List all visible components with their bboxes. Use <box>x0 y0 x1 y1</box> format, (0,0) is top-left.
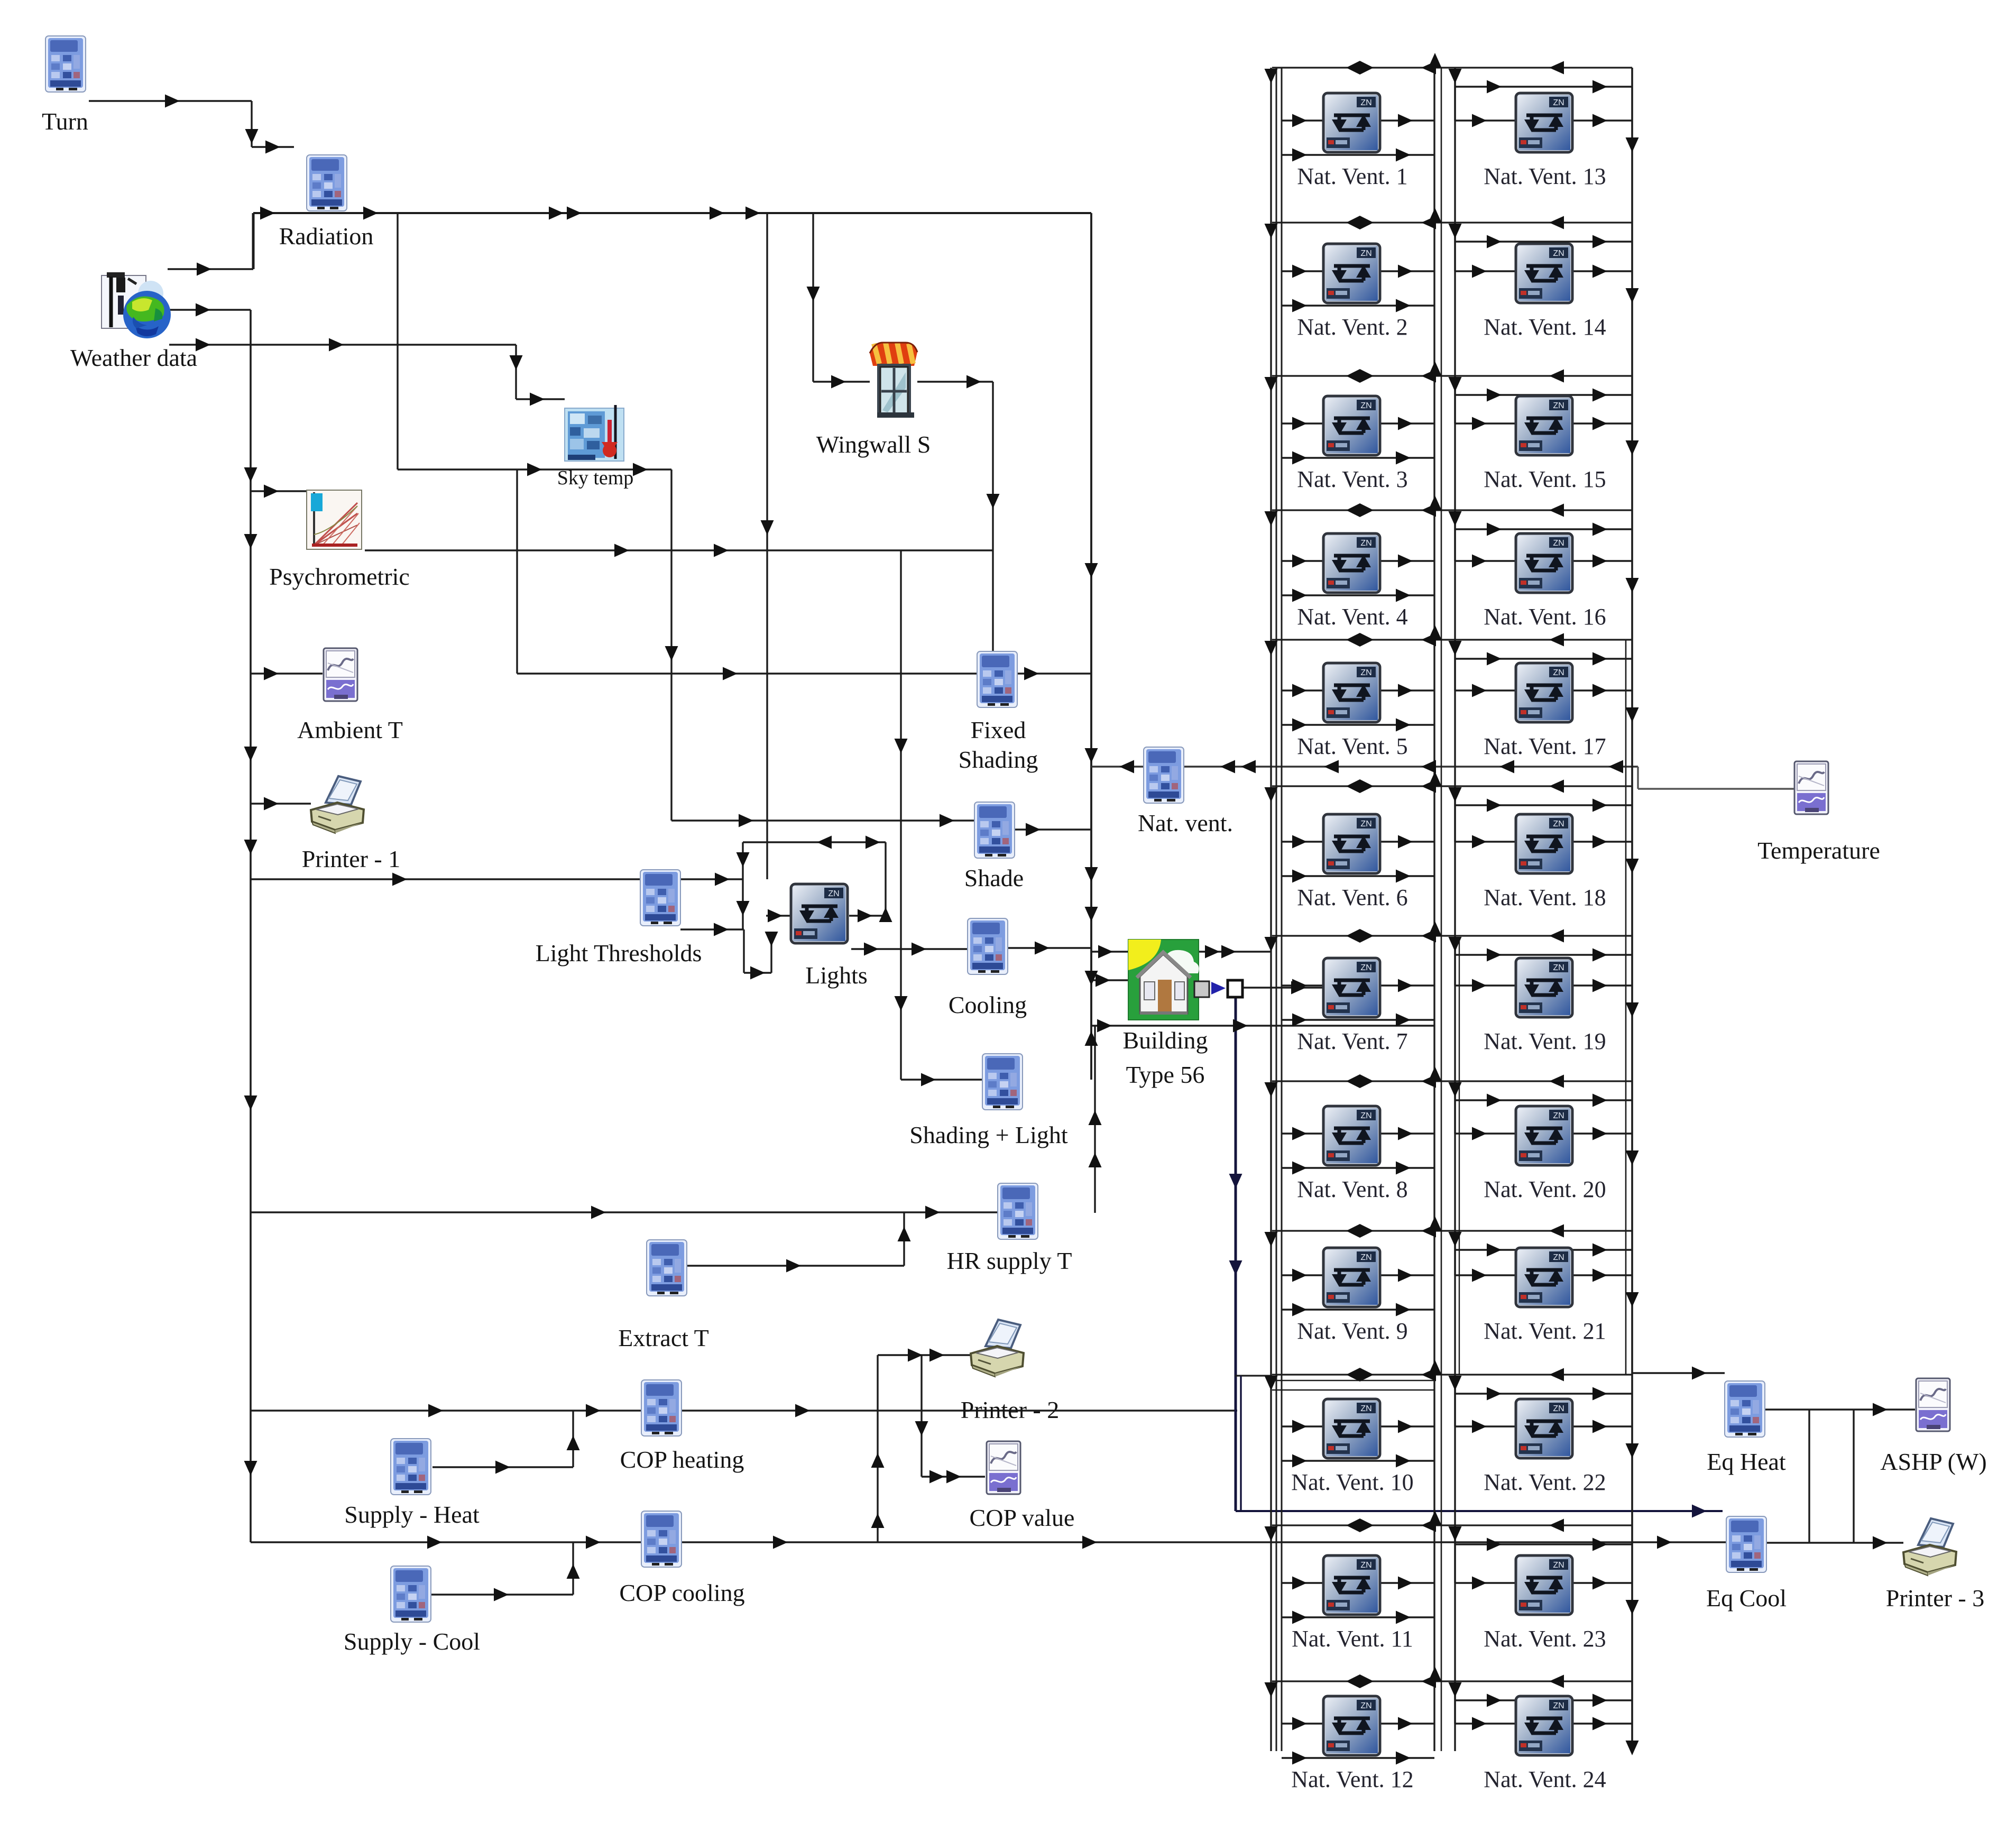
svg-text:ZN: ZN <box>1553 668 1564 677</box>
nat vent 18 controller <box>1516 814 1572 873</box>
shade calc <box>974 802 1015 858</box>
svg-text:Ambient T: Ambient T <box>297 716 403 743</box>
nat vent calc <box>1144 747 1184 803</box>
HR supply T calc <box>998 1183 1038 1239</box>
shading+light calc <box>982 1054 1023 1110</box>
svg-text:ZN: ZN <box>1553 963 1564 972</box>
nat vent 1 controller <box>1323 93 1380 152</box>
nat vent 8 controller <box>1323 1106 1380 1165</box>
svg-text:Nat. Vent. 7: Nat. Vent. 7 <box>1297 1028 1407 1054</box>
svg-text:Printer - 1: Printer - 1 <box>302 845 401 872</box>
printer 3 <box>1903 1518 1956 1576</box>
svg-text:Nat. Vent. 5: Nat. Vent. 5 <box>1297 733 1407 759</box>
svg-text:COP cooling: COP cooling <box>619 1579 744 1606</box>
svg-text:Supply - Heat: Supply - Heat <box>344 1501 480 1528</box>
eq heat calc <box>1725 1381 1765 1437</box>
supply cool calc <box>391 1566 431 1622</box>
svg-text:Nat. Vent. 24: Nat. Vent. 24 <box>1484 1766 1606 1792</box>
cooling calc <box>968 918 1008 974</box>
svg-text:COP heating: COP heating <box>620 1446 744 1473</box>
svg-text:ZN: ZN <box>1360 820 1371 828</box>
svg-text:Shading + Light: Shading + Light <box>909 1121 1068 1148</box>
svg-text:ZN: ZN <box>1553 539 1564 548</box>
ASHP plotter <box>1916 1378 1950 1431</box>
svg-text:Cooling: Cooling <box>949 991 1027 1018</box>
svg-text:ZN: ZN <box>1553 820 1564 828</box>
extract T calc <box>647 1240 687 1296</box>
svg-text:Nat. Vent. 22: Nat. Vent. 22 <box>1484 1469 1606 1495</box>
calculator Radiation <box>307 155 347 211</box>
svg-text:Nat. Vent. 18: Nat. Vent. 18 <box>1484 885 1606 910</box>
nat vent 12 controller <box>1323 1696 1380 1755</box>
svg-text:ZN: ZN <box>828 889 839 898</box>
svg-text:Nat. Vent. 15: Nat. Vent. 15 <box>1484 466 1606 492</box>
sky temp icon <box>565 405 624 461</box>
COP value plotter <box>987 1441 1020 1494</box>
nat vent 9 controller <box>1323 1248 1380 1307</box>
svg-text:ZN: ZN <box>1553 1404 1564 1413</box>
svg-text:Nat. Vent. 19: Nat. Vent. 19 <box>1484 1028 1606 1054</box>
nat vent 17 controller <box>1516 663 1572 722</box>
svg-text:ZN: ZN <box>1360 98 1371 107</box>
svg-text:Building: Building <box>1122 1027 1208 1054</box>
svg-text:Nat. Vent. 4: Nat. Vent. 4 <box>1297 604 1407 630</box>
printer 1 <box>311 776 364 833</box>
nat vent 4 controller <box>1323 533 1380 593</box>
connector squares <box>1194 981 1209 997</box>
nat vent 14 controller <box>1516 244 1572 303</box>
svg-text:ASHP (W): ASHP (W) <box>1880 1448 1986 1475</box>
svg-text:Turn: Turn <box>42 108 88 135</box>
svg-text:ZN: ZN <box>1553 401 1564 410</box>
light thresholds calc <box>640 870 680 926</box>
wingwall icon <box>870 343 917 418</box>
nat vent 16 controller <box>1516 533 1572 593</box>
svg-text:Eq Heat: Eq Heat <box>1707 1448 1786 1475</box>
svg-text:ZN: ZN <box>1553 1253 1564 1262</box>
fixed shading calc <box>977 651 1017 707</box>
nat vent 21 controller <box>1516 1248 1572 1307</box>
nat vent 5 controller <box>1323 663 1380 722</box>
svg-text:ZN: ZN <box>1553 98 1564 107</box>
svg-text:ZN: ZN <box>1360 1253 1371 1262</box>
svg-text:Nat. Vent. 1: Nat. Vent. 1 <box>1297 163 1407 189</box>
svg-text:Lights: Lights <box>805 962 868 989</box>
svg-text:Nat. Vent. 8: Nat. Vent. 8 <box>1297 1176 1407 1202</box>
svg-text:Nat. Vent. 21: Nat. Vent. 21 <box>1484 1318 1606 1344</box>
svg-text:ZN: ZN <box>1360 539 1371 548</box>
svg-text:Temperature: Temperature <box>1757 837 1880 864</box>
nat vent 2 controller <box>1323 244 1380 303</box>
svg-text:HR supply T: HR supply T <box>947 1247 1072 1274</box>
svg-text:Nat. Vent. 2: Nat. Vent. 2 <box>1297 314 1407 340</box>
svg-text:ZN: ZN <box>1553 1111 1564 1120</box>
svg-text:Extract T: Extract T <box>618 1324 709 1351</box>
weather data icon <box>102 272 171 338</box>
svg-text:Nat. Vent. 6: Nat. Vent. 6 <box>1297 885 1407 910</box>
svg-text:Wingwall S: Wingwall S <box>816 431 931 458</box>
nat vent 13 controller <box>1516 93 1572 152</box>
eq cool calc <box>1726 1516 1766 1572</box>
nat vent 3 controller <box>1323 396 1380 455</box>
svg-text:Shade: Shade <box>964 864 1024 891</box>
svg-text:ZN: ZN <box>1360 401 1371 410</box>
svg-text:Nat. Vent. 10: Nat. Vent. 10 <box>1291 1469 1413 1495</box>
svg-text:Printer - 3: Printer - 3 <box>1886 1585 1985 1612</box>
nat vent 19 controller <box>1516 958 1572 1017</box>
svg-text:ZN: ZN <box>1360 1111 1371 1120</box>
svg-text:Nat. Vent. 12: Nat. Vent. 12 <box>1291 1766 1413 1792</box>
svg-text:Light Thresholds: Light Thresholds <box>536 940 702 966</box>
svg-text:ZN: ZN <box>1360 963 1371 972</box>
svg-text:ZN: ZN <box>1360 1701 1371 1710</box>
svg-text:Radiation: Radiation <box>279 223 374 250</box>
building type56 <box>1128 940 1199 1020</box>
svg-text:ZN: ZN <box>1553 249 1564 258</box>
svg-text:Nat. vent.: Nat. vent. <box>1138 809 1233 836</box>
svg-text:Printer - 2: Printer - 2 <box>961 1396 1060 1423</box>
svg-text:Nat. Vent. 9: Nat. Vent. 9 <box>1297 1318 1407 1344</box>
svg-text:Weather data: Weather data <box>70 344 197 371</box>
COP cooling calc <box>641 1511 682 1567</box>
ambient T plotter <box>324 648 357 701</box>
nat vent 23 controller <box>1516 1555 1572 1615</box>
svg-text:ZN: ZN <box>1360 1561 1371 1570</box>
svg-text:Psychrometric: Psychrometric <box>269 563 410 590</box>
svg-text:Nat. Vent. 17: Nat. Vent. 17 <box>1484 733 1606 759</box>
svg-text:ZN: ZN <box>1553 1561 1564 1570</box>
COP heating calc <box>641 1380 682 1436</box>
svg-text:Nat. Vent. 3: Nat. Vent. 3 <box>1297 466 1407 492</box>
nat vent 22 controller <box>1516 1399 1572 1458</box>
printer 2 <box>971 1320 1024 1377</box>
nat vent 6 controller <box>1323 814 1380 873</box>
lights controller <box>791 884 848 943</box>
svg-text:Fixed: Fixed <box>971 716 1026 743</box>
nat vent 20 controller <box>1516 1106 1572 1165</box>
calculator Turn <box>45 36 86 92</box>
svg-text:ZN: ZN <box>1553 1701 1564 1710</box>
svg-text:Type 56: Type 56 <box>1126 1061 1205 1088</box>
svg-text:Supply - Cool: Supply - Cool <box>344 1628 480 1655</box>
svg-text:ZN: ZN <box>1360 668 1371 677</box>
nat vent 7 controller <box>1323 958 1380 1017</box>
svg-text:ZN: ZN <box>1360 249 1371 258</box>
nat vent 10 controller <box>1323 1399 1380 1458</box>
psychrometric icon <box>307 490 362 549</box>
svg-text:Nat. Vent. 23: Nat. Vent. 23 <box>1484 1626 1606 1652</box>
supply heat calc <box>391 1439 431 1495</box>
svg-text:Shading: Shading <box>959 746 1038 773</box>
temperature plotter <box>1794 761 1828 814</box>
svg-text:Sky temp: Sky temp <box>557 467 634 489</box>
nat vent 11 controller <box>1323 1555 1380 1615</box>
svg-text:Nat. Vent. 16: Nat. Vent. 16 <box>1484 604 1606 630</box>
svg-text:Nat. Vent. 14: Nat. Vent. 14 <box>1484 314 1606 340</box>
nat vent 24 controller <box>1516 1696 1572 1755</box>
svg-text:Nat. Vent. 20: Nat. Vent. 20 <box>1484 1176 1606 1202</box>
svg-text:COP value: COP value <box>970 1504 1075 1531</box>
svg-text:Eq Cool: Eq Cool <box>1706 1585 1787 1612</box>
nat vent 15 controller <box>1516 396 1572 455</box>
svg-text:Nat. Vent. 13: Nat. Vent. 13 <box>1484 163 1606 189</box>
svg-text:ZN: ZN <box>1360 1404 1371 1413</box>
svg-text:Nat. Vent. 11: Nat. Vent. 11 <box>1292 1626 1413 1652</box>
